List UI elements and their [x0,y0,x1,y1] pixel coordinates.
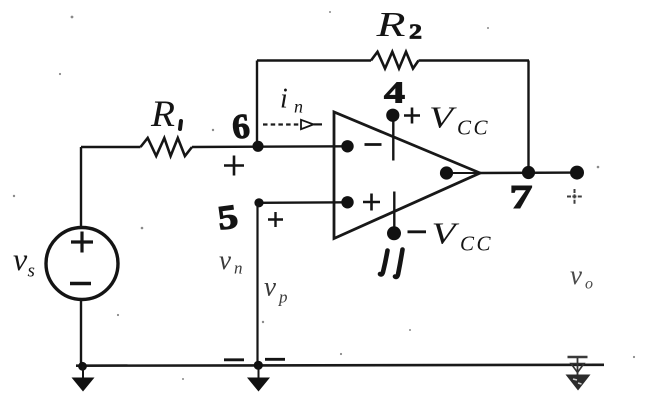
label + (source plus) [71,232,93,253]
svg-text:V: V [432,216,460,251]
node 6 [252,141,263,152]
ground (middle) [247,365,270,392]
svg-text:4: 4 [384,75,405,110]
label vp [264,272,288,307]
op-amp U1 triangle [334,112,480,239]
wire: feedback left vertical to node 6 [256,61,258,147]
label + (vo plus, faded) [567,189,582,204]
node ground-middle [254,361,263,370]
svg-text:p: p [278,288,288,307]
node ground-left [78,362,87,371]
label - (inverting) [365,143,382,146]
label - (vp minus) [265,358,285,361]
label vs [13,241,35,282]
svg-text:o: o [585,276,593,293]
svg-text:7: 7 [510,179,533,216]
label R1 [150,94,181,135]
wire: feedback top left segment [257,59,371,61]
label 4 [384,75,405,110]
svg-text:R: R [375,5,405,44]
label - (vo minus, faded) [568,356,588,359]
svg-text:i: i [280,84,288,115]
label vn [219,245,243,278]
pin 11 -Vcc dot [387,226,401,240]
svg-text:CC: CC [460,232,493,256]
svg-text:R: R [150,94,175,135]
wire: +Vcc pin vertical [392,121,394,161]
wire: -Vcc pin vertical [393,192,395,229]
terminal vo [570,166,584,180]
svg-text:s: s [28,261,35,282]
pin + non-inverting input dot [341,196,353,208]
label 6 [230,106,251,147]
svg-text:CC: CC [457,116,490,140]
wire: R1 to node 6 to op-amp inverting input [192,145,347,148]
wire: source top vertical [80,147,82,228]
resistor R1 [141,138,193,156]
svg-text:n: n [294,97,303,117]
resistor R2 [371,52,419,69]
wire: feedback top right segment [419,59,530,61]
node 5 [254,198,263,207]
pin output dot [440,166,453,179]
ground (right, faded) [566,358,591,391]
label -Vcc [408,216,494,256]
wire: feedback right vertical to node 7 [527,61,529,173]
pin - inverting input dot [341,140,353,152]
source vs circle [46,228,118,300]
svg-text:2: 2 [409,20,422,44]
label - (vn minus) [224,358,244,361]
svg-text:V: V [429,100,457,135]
label - (source minus) [70,282,91,285]
wire: node 5 vertical down to ground bus [256,203,258,366]
svg-text:v: v [219,245,231,275]
label R2 [375,5,422,44]
svg-text:v: v [264,272,276,302]
svg-text:n: n [234,259,243,278]
label + (vp plus) [268,212,283,227]
wire: node 5 to non-inverting input [259,201,347,204]
node 7 [522,166,535,179]
label + (vn plus) [224,156,244,176]
label 5 [215,198,240,237]
label 7 [510,179,533,216]
label 11 [380,250,403,277]
ground (left) [72,366,95,392]
svg-text:v: v [13,241,28,277]
wire: source bottom vertical [80,300,82,367]
svg-text:v: v [570,260,582,290]
label in current [280,84,303,117]
label + (non-inverting) [363,194,380,211]
label vo (faded) [570,260,593,293]
label +Vcc [404,100,490,140]
wire: source top to R1 [81,146,141,148]
wire: op-amp output to terminal [480,171,577,174]
wire: output dot to apex [452,172,480,174]
wire: in dashed current arrow [263,120,322,129]
wire: ground bus [76,363,604,367]
pin 4 +Vcc dot [386,109,399,122]
